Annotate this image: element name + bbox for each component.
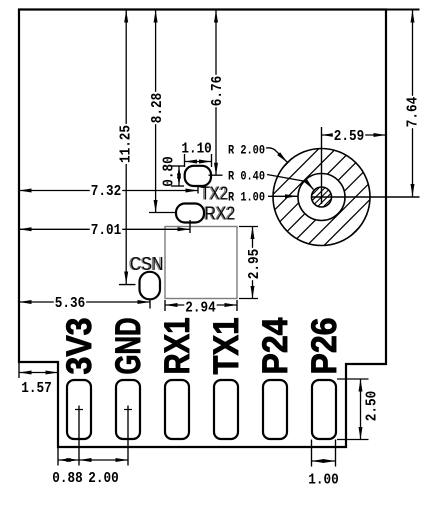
label RX1 (158, 318, 197, 375)
dim 1.57 (19, 372, 58, 374)
svg-text:5.36: 5.36 (55, 295, 85, 312)
hole center horizontal line (311, 196, 420, 198)
text 11.25 (118, 124, 131, 164)
pad RX1 (165, 380, 189, 439)
hatching inner (296, 183, 347, 211)
label RX2 (203, 204, 235, 224)
dim 0.88 / 2.00 (58, 459, 128, 461)
label CSN (129, 254, 164, 274)
hole inner circle R0.40 (312, 187, 332, 207)
dim 2.95 (252, 227, 254, 299)
text 2.59 (333, 129, 365, 142)
dim 1.10 (185, 161, 212, 163)
extension ticks (119, 284, 136, 286)
text 8.28 (150, 92, 163, 124)
svg-text:0.80: 0.80 (160, 156, 177, 186)
dim 1.00 (312, 460, 336, 462)
text 5.36 (54, 296, 86, 309)
svg-text:P24: P24 (256, 317, 295, 374)
label P26 (305, 318, 344, 375)
label TX2 (199, 184, 228, 204)
plus mark GND (124, 409, 132, 411)
hole middle circle R1.00 (298, 174, 345, 221)
text 7.32 (90, 184, 122, 197)
svg-text:2.50: 2.50 (363, 391, 380, 421)
svg-text:R 2.00: R 2.00 (228, 144, 265, 158)
svg-text:RX1: RX1 (158, 318, 197, 375)
svg-text:7.01: 7.01 (91, 222, 121, 239)
pad RX2 (176, 204, 204, 223)
label P24 (256, 317, 295, 374)
text 7.64 (405, 96, 418, 128)
svg-text:7.32: 7.32 (91, 183, 121, 200)
top edge extension line (386, 9, 420, 11)
label 3V3 (60, 318, 99, 375)
pad CSN (140, 272, 161, 300)
svg-text:0.88: 0.88 (52, 470, 82, 487)
svg-text:11.25: 11.25 (118, 125, 135, 163)
pad GND (116, 380, 140, 439)
svg-text:R 0.40: R 0.40 (228, 169, 265, 183)
svg-text:2.59: 2.59 (334, 128, 364, 145)
board outline (19, 10, 386, 448)
text 2.95 (247, 248, 260, 280)
svg-text:TX1: TX1 (207, 318, 246, 375)
dim 0.80 (178, 166, 180, 186)
svg-text:TX2: TX2 (201, 184, 228, 204)
svg-text:2.94: 2.94 (185, 299, 215, 316)
dim 7.32 (19, 190, 198, 192)
text 2.50 (363, 391, 380, 421)
pad 3V3 (67, 380, 91, 439)
pad P24 (263, 380, 287, 439)
dim 11.25 (125, 10, 127, 284)
leader R2.00 (266, 148, 287, 162)
dim 2.94 (165, 304, 237, 306)
dim 7.01 (19, 228, 190, 230)
dim 7.64 (412, 10, 414, 197)
svg-text:2.00: 2.00 (88, 470, 118, 487)
svg-text:1.57: 1.57 (21, 380, 51, 397)
pad TX1 (214, 380, 238, 439)
svg-text:1.00: 1.00 (308, 471, 338, 488)
dim 2.59 (322, 134, 387, 136)
text 6.76 (210, 75, 223, 107)
dim 6.76 (215, 10, 217, 175)
svg-text:8.28: 8.28 (149, 93, 166, 123)
svg-text:GND: GND (109, 318, 148, 375)
dim 5.36 (19, 301, 150, 303)
text 7.01 (90, 223, 122, 236)
svg-text:2.95: 2.95 (246, 249, 263, 279)
svg-text:RX2: RX2 (205, 204, 236, 224)
plus mark 3V3 (75, 409, 83, 411)
svg-text:CSN: CSN (130, 254, 164, 274)
leader R1.00 (268, 195, 298, 197)
svg-text:3V3: 3V3 (60, 318, 99, 375)
svg-text:P26: P26 (305, 318, 344, 375)
arrows (124, 10, 128, 23)
shield square 2.94 x 2.95 (165, 227, 237, 299)
pad P26 (312, 380, 336, 439)
svg-text:6.76: 6.76 (209, 76, 226, 106)
label GND (109, 318, 148, 375)
svg-text:7.64: 7.64 (404, 97, 421, 127)
hatching annulus (177, 137, 427, 257)
text 2.94 (184, 300, 216, 313)
svg-text:1.10: 1.10 (181, 140, 211, 157)
pad TX2 (185, 166, 211, 186)
leader R0.40 (267, 175, 314, 190)
label TX1 (207, 318, 246, 375)
hole center vertical line (321, 127, 323, 204)
svg-text:R 1.00: R 1.00 (228, 190, 265, 204)
text 0.80 (160, 156, 177, 186)
dim 8.28 (155, 10, 157, 213)
hole outer circle R2.00 (273, 149, 370, 246)
dim 2.50 (360, 379, 362, 440)
